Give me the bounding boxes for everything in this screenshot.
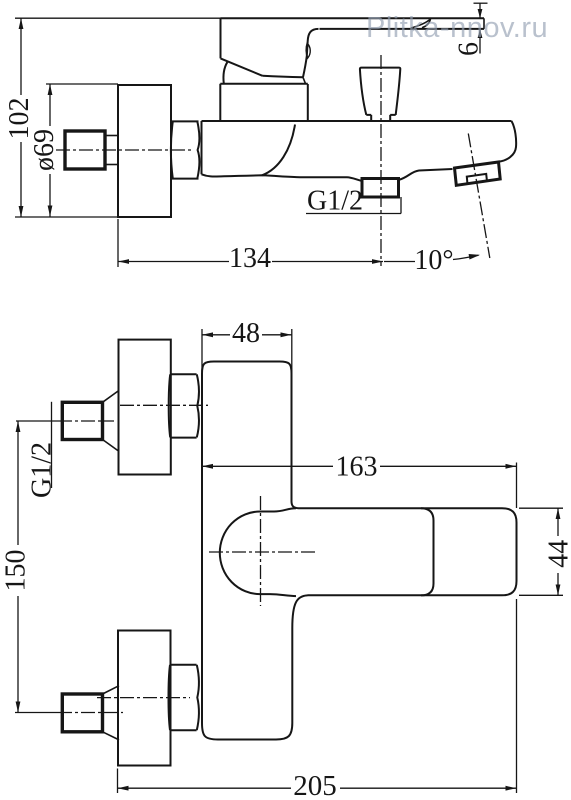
dim 150 line (17, 421, 19, 713)
upper eccentric thread (front) (62, 402, 102, 439)
dim phi69 line (49, 84, 51, 217)
body bar top edge (299, 508, 517, 522)
svg-text:44: 44 (544, 540, 571, 568)
body column right edge lower (292, 595, 307, 723)
svg-text:10°: 10° (414, 245, 453, 276)
G1/2 connector (side view) (362, 179, 399, 198)
upper eccentric cone (103, 390, 120, 451)
dim 102 extension line bottom (15, 216, 118, 218)
lower union nut (front) (169, 665, 199, 731)
lower eccentric cone (103, 686, 120, 740)
body bar right edge (502, 523, 517, 596)
dim 205 line (118, 787, 517, 789)
handle lever bottom run (263, 76, 304, 77)
upper wall plate (front) (119, 340, 171, 475)
handle bottom transition (260, 594, 296, 596)
svg-text:G1/2: G1/2 (307, 186, 363, 217)
svg-text:Plitka-nnov.ru: Plitka-nnov.ru (366, 12, 548, 44)
aerator (side view) (455, 162, 501, 185)
handle tip end (483, 18, 485, 29)
centerline inlet (side view) (56, 149, 191, 151)
wall plate escutcheon (side view) (118, 85, 171, 217)
body bottom edge left of connector (202, 174, 363, 181)
handle right end (front) (421, 508, 434, 595)
svg-text:163: 163 (336, 452, 378, 483)
body bar bottom edge (308, 594, 503, 596)
dim 44 line (557, 508, 559, 595)
body column top (202, 362, 292, 374)
handle dome vertical centerline (260, 496, 262, 606)
handle arm top edge (221, 17, 485, 19)
svg-text:134: 134 (229, 243, 271, 274)
dim 134 line (118, 261, 383, 263)
dim 6 line (479, 3, 481, 53)
aerator tilted axis (468, 134, 490, 259)
lower inlet axis (97, 697, 190, 699)
dim 48 extensions (202, 329, 292, 396)
spout right end curve (499, 121, 516, 162)
dim 10deg line (384, 261, 415, 263)
dim 102 line (20, 18, 22, 217)
body column bottom (218, 723, 292, 740)
knob / G1/2 centerline (380, 55, 382, 266)
svg-text:150: 150 (0, 550, 31, 592)
handle arm bottom edge (320, 28, 485, 30)
handle dome (front) (220, 512, 260, 595)
handle dome horizontal centerline (209, 551, 315, 553)
lower eccentric axis extension (15, 712, 58, 714)
dim 163 extension right (516, 463, 518, 509)
lower wall plate (front) (118, 631, 171, 766)
lower eccentric thread (front) (62, 694, 102, 732)
spout root curve (262, 125, 295, 176)
dim 6 tick (474, 2, 488, 4)
upper eccentric axis (16, 420, 58, 422)
handle tip curl (411, 19, 431, 28)
handle lever right bend (303, 29, 319, 77)
eccentric thread (side view) (65, 131, 105, 169)
upper inlet axis (120, 404, 208, 406)
svg-text:G1/2: G1/2 (27, 442, 58, 498)
dim phi69 extension line top (46, 83, 118, 85)
dim 102 extension line top (15, 17, 221, 19)
body left edge (201, 121, 203, 174)
dim 44 extensions (519, 508, 563, 595)
union nut (side view) (171, 121, 199, 178)
svg-text:205: 205 (293, 770, 337, 800)
body column right edge upper (292, 374, 299, 509)
diverter knob (side view) (360, 68, 400, 121)
handle bend lens (306, 43, 310, 58)
handle cap right slant (303, 77, 306, 84)
handle grip rear arc (223, 62, 227, 83)
svg-text:48: 48 (232, 318, 260, 349)
dim 134 extension left (117, 219, 119, 267)
body bottom edge right of connector (399, 169, 453, 180)
handle top transition (260, 508, 296, 511)
dim 163 line (202, 465, 517, 467)
handle cap (side view) (220, 84, 307, 121)
body column left edge (202, 374, 218, 740)
dim 48 line (202, 334, 292, 336)
handle grip diagonal (221, 58, 263, 75)
aerator notch (467, 174, 487, 184)
body top edge (side view) (202, 120, 512, 122)
svg-text:ø69: ø69 (29, 129, 60, 171)
upper union nut (front) (169, 374, 199, 437)
svg-text:6: 6 (454, 42, 485, 56)
eccentric neck (side view) (106, 136, 118, 165)
handle lever grip left edge (220, 18, 222, 58)
dim 205 extensions (118, 599, 517, 793)
